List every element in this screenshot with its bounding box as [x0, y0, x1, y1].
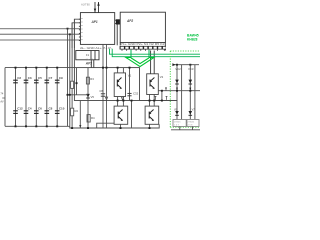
green arrow inner chevron	[131, 58, 149, 64]
V1 transistor box	[114, 73, 125, 97]
AP1 top wire with up arrow	[98, 2, 100, 13]
wire bus line 3 left	[0, 39, 80, 41]
transistor box V3 (bottom left)	[114, 106, 128, 124]
wire V2 feed right	[153, 51, 155, 74]
tick on left rail	[2, 97, 5, 99]
bus top-left	[5, 67, 74, 69]
wire L to box1	[97, 123, 114, 128]
svg-text:R4: R4	[91, 116, 95, 120]
left ground rail vertical	[4, 68, 6, 127]
capacitor symbols bottom row	[13, 111, 59, 114]
diode V5 under R3	[86, 94, 90, 98]
node dots R2 R4 bus landings	[71, 127, 89, 129]
green wire elbow 2	[112, 49, 200, 57]
arrowheads onto line1	[176, 88, 178, 91]
node dots on inner horizontal	[67, 94, 71, 96]
svg-text:VC2: VC2	[175, 67, 181, 71]
svg-text:C9: C9	[59, 76, 63, 80]
diode branch VC2	[176, 65, 178, 120]
capacitor C52	[129, 68, 131, 101]
wire R3/R4 branch	[87, 68, 89, 128]
svg-text:AP2: AP2	[126, 19, 133, 23]
wire V2 feed left	[150, 51, 152, 74]
green dashed box	[170, 51, 200, 127]
wire line1 right	[158, 90, 200, 92]
svg-text:C5: C5	[38, 76, 42, 80]
svg-text:P1+ GND P2+ N1 N2 R5 K2: P1+ GND P2+ N1 N2 R5 K2	[121, 43, 166, 46]
svg-text:R3: R3	[90, 77, 94, 81]
svg-text:1 4 7: 1 4 7	[174, 125, 180, 127]
wire drop from connector	[116, 25, 118, 46]
bus bottom jog	[70, 124, 159, 128]
green big hollow arrow	[126, 58, 154, 67]
svg-text:C8: C8	[49, 107, 53, 111]
svg-text:V2: V2	[160, 75, 164, 79]
wire vertical v4	[73, 19, 75, 67]
resistor R3	[86, 77, 89, 84]
AP1 box	[80, 13, 114, 45]
wire vertical 161.9	[161, 91, 163, 101]
wire vertical v1	[67, 29, 69, 127]
green arrow shaft right	[148, 50, 150, 58]
wire corner to AP1 pin 1	[74, 19, 80, 48]
junction dots bottom bus	[15, 125, 59, 127]
AP1 top wire with down arrow	[94, 2, 96, 13]
wire inner vertical AP3	[76, 68, 78, 95]
wire V3 stubs	[117, 97, 119, 107]
AP1 left pin stubs	[79, 19, 81, 40]
AP1 pin number marks	[81, 18, 82, 39]
svg-text:V1: V1	[128, 73, 132, 77]
AP2 bottom pad row	[120, 46, 166, 50]
wire vertical v3 (R1/R2 branch)	[71, 23, 73, 128]
arrowhead on diode top line	[172, 63, 175, 66]
svg-text:C3: C3	[28, 76, 32, 80]
capacitor C8b on AL+ drop	[101, 94, 105, 96]
ground tick under P+ drop	[105, 97, 107, 100]
lower diode V5	[175, 111, 179, 115]
measurement tick on line1	[165, 87, 167, 90]
relay box right 1	[173, 120, 186, 127]
wire bus line 1 left	[0, 28, 80, 30]
wire inner horizontal AP3	[68, 94, 89, 96]
wire drop x80	[79, 101, 81, 129]
svg-text:2TB46: 2TB46	[188, 122, 195, 124]
svg-text:C10: C10	[59, 107, 65, 111]
green arrow shaft left	[130, 50, 132, 58]
svg-text:C6: C6	[38, 107, 42, 111]
node junction dots left verticals	[67, 28, 71, 36]
resistor R4	[87, 115, 90, 122]
stubs to bottom bus	[179, 127, 181, 130]
AP2 box	[120, 12, 165, 42]
svg-text:R2: R2	[75, 109, 79, 113]
AP2 pad tick stubs	[122, 50, 164, 52]
capacitor branch C3	[25, 68, 27, 127]
AP2 pad windows	[121, 47, 166, 49]
resistor R2	[71, 108, 74, 116]
ground tick mid	[121, 97, 123, 100]
svg-text:KHB28: KHB28	[187, 37, 198, 41]
svg-text:AP1: AP1	[91, 20, 98, 24]
wire V1 box stubs top	[117, 68, 119, 73]
green wire elbow 1	[110, 49, 201, 54]
capacitor symbols top row	[13, 80, 59, 83]
svg-text:AJIT80: AJIT80	[81, 2, 90, 6]
junction dots top bus	[15, 67, 59, 69]
svg-text:C7: C7	[49, 76, 53, 80]
svg-text:AP3: AP3	[85, 62, 92, 66]
lower diode V7	[189, 111, 193, 115]
capacitor branch C7	[46, 68, 48, 127]
svg-text:2TB45: 2TB45	[174, 122, 181, 124]
svg-text:VC3: VC3	[188, 67, 194, 71]
wire corner to AP1 pin 2	[72, 23, 80, 48]
node dots AP3 top edge	[102, 67, 131, 69]
svg-text:AV: AV	[0, 100, 4, 104]
bus bottom right	[171, 129, 200, 131]
measurement tick on line2 right	[166, 96, 168, 100]
node dot inner	[76, 82, 78, 84]
bus bottom-left	[5, 125, 70, 127]
bus line2 (AP3 bottom to right)	[140, 100, 178, 102]
transistor box V4 (bottom middle)	[145, 106, 159, 124]
svg-text:2 5 8: 2 5 8	[188, 125, 194, 127]
svg-text:C2: C2	[17, 76, 21, 80]
wire V4 stubs	[149, 95, 151, 107]
AP2 edge extensions	[119, 43, 121, 46]
diode branch VC3	[189, 65, 191, 120]
wire vertical mid-bottom	[131, 101, 133, 129]
capacitor branch C9	[56, 68, 58, 127]
wire AL+ drop under AP1	[102, 44, 104, 128]
AP3 box	[74, 68, 139, 101]
connector square between AP1 and AP2	[115, 19, 121, 21]
capacitor branch C2	[15, 68, 17, 127]
svg-text:C4: C4	[28, 107, 32, 111]
resistor R1	[71, 81, 74, 88]
measurement tick on line2	[155, 96, 157, 100]
relay box right 2	[187, 120, 199, 127]
node dots diode top line	[176, 64, 191, 66]
wire P+ drop under AP1	[106, 44, 108, 128]
wire vertical v2	[69, 34, 71, 126]
junction dots line1	[176, 90, 191, 92]
svg-text:V5: V5	[91, 95, 95, 99]
transistor V1 symbol	[117, 78, 122, 89]
V2 transistor box	[147, 74, 159, 95]
svg-text:C32: C32	[133, 92, 139, 96]
svg-text:AL- GND AL+ P+ P-: AL- GND AL+ P+ P-	[80, 46, 112, 50]
svg-text:C8: C8	[99, 89, 103, 93]
capacitor branch C5	[35, 68, 37, 127]
svg-text:C12: C12	[17, 107, 23, 111]
terminal block P1	[76, 51, 99, 60]
wire bus line 2 left	[0, 33, 80, 35]
wire stubs P1 to AP3	[90, 60, 92, 68]
diode branch top line	[173, 64, 199, 66]
